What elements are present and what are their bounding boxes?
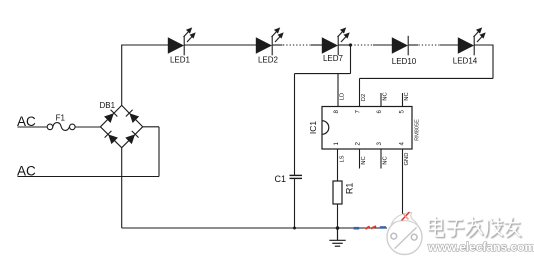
annotation: red dash 1 <box>365 226 369 229</box>
svg-text:6: 6 <box>376 110 383 114</box>
wire: right side drop to D2 return <box>492 45 494 79</box>
LED D10 (LED10) <box>392 36 408 56</box>
svg-text:D2: D2 <box>361 94 367 101</box>
diode bottom-left (- bottom to left corner) <box>105 131 118 144</box>
wire: fuse to bridge left corner <box>75 126 100 128</box>
svg-text:8: 8 <box>333 110 340 114</box>
wire: C1 branch down to C1 top plate <box>294 74 296 175</box>
svg-text:1: 1 <box>333 142 340 146</box>
wire: LED7 cathode to junction <box>338 44 350 46</box>
bridge rectifier DB1 <box>100 105 142 147</box>
wire: pin 4 stub down to rail <box>402 149 404 214</box>
pin 3 stub <box>380 149 382 169</box>
diamond edges <box>100 105 121 126</box>
watermark logo circle <box>387 213 422 255</box>
wire: pin 8 stub <box>337 74 339 107</box>
annotation: red dash 2 <box>371 226 376 229</box>
diode top-left (left corner to + top) <box>104 110 117 123</box>
diode bottom-right (- bottom to right corner) <box>125 131 138 144</box>
LED D14 (LED14) <box>458 27 486 55</box>
svg-text:NC: NC <box>404 92 410 100</box>
wire: bridge right corner out <box>143 126 159 128</box>
wire: LED1 cathode to LED2 anode <box>184 44 256 46</box>
capacitor C1 <box>290 175 303 178</box>
svg-text:LED7: LED7 <box>323 54 344 63</box>
wire: top rail to LED1 anode <box>121 44 168 46</box>
wire (dotted): LED10 cathode to LED14 anode <box>409 44 418 46</box>
svg-text:IC1: IC1 <box>308 121 318 135</box>
svg-text:R1: R1 <box>345 183 355 195</box>
ground symbol <box>329 228 345 246</box>
svg-text:5: 5 <box>399 110 406 114</box>
pin 5 stub <box>402 93 404 107</box>
LED D1 (LED1) <box>168 27 196 55</box>
diode top-right (right corner to + top) <box>126 110 139 123</box>
LED D7 (LED7) <box>322 27 350 55</box>
wire: R1 bottom to rail <box>337 204 339 228</box>
pin 6 stub <box>380 93 382 107</box>
wire: pin 1 stub down to R1 <box>337 149 339 181</box>
wire (dotted): LED2 cathode to LED7 anode <box>273 44 283 46</box>
resistor R1 <box>333 181 342 204</box>
svg-text:NC: NC <box>382 92 388 100</box>
pin 2 stub <box>359 149 361 169</box>
annotation: blue dash on rail (left) <box>354 227 360 230</box>
svg-text:GND: GND <box>404 153 410 166</box>
annotation: red cross over pin4 wire <box>402 212 410 221</box>
svg-text:LED14: LED14 <box>453 57 478 66</box>
svg-text:LED10: LED10 <box>392 57 417 66</box>
wire: bridge bottom to ground rail <box>121 148 123 228</box>
wire: LED7 tap down to LD net <box>350 45 352 74</box>
wire: AC2 line <box>18 176 160 178</box>
svg-text:RM805E: RM805E <box>414 119 420 141</box>
svg-text:C1: C1 <box>274 174 286 184</box>
svg-text:2: 2 <box>355 142 362 146</box>
wire: AC input to fuse <box>18 126 48 128</box>
wire: bridge top output up to LED rail <box>121 45 123 106</box>
svg-text:DB1: DB1 <box>100 101 116 110</box>
svg-text:LED1: LED1 <box>170 56 191 65</box>
svg-text:LS: LS <box>339 155 345 162</box>
wire: C1 bottom plate to bottom rail <box>294 179 296 228</box>
svg-text:www.elecfans.com: www.elecfans.com <box>427 240 534 254</box>
fuse F1 <box>47 123 75 131</box>
wire: LED14 cathode to right corner <box>474 44 493 46</box>
junction dot: R1 / bottom rail <box>336 226 340 230</box>
svg-text:LED2: LED2 <box>258 56 279 65</box>
svg-text:NC: NC <box>361 156 367 164</box>
svg-text:LD: LD <box>339 93 345 100</box>
wire: D2 return horizontal to pin 7 <box>360 77 494 79</box>
svg-text:NC: NC <box>382 156 388 164</box>
svg-text:3: 3 <box>376 142 383 146</box>
svg-text:7: 7 <box>355 110 362 114</box>
wire (dotted): junction to LED10 anode <box>351 44 373 46</box>
wire: bottom rail <box>122 227 387 229</box>
LED D2 (LED2) <box>256 27 284 55</box>
svg-text:4: 4 <box>399 142 406 146</box>
wire: LD net horizontal to C1 branch <box>295 73 351 75</box>
wire: pin 7 stub <box>359 78 361 106</box>
annotation: blue dash on rail (right) <box>380 226 386 229</box>
junction dot at LED7 tap <box>349 43 352 46</box>
junction dot: C1 / bottom rail <box>293 227 296 230</box>
svg-text:F1: F1 <box>56 114 66 123</box>
IC U1 (IC1) body <box>322 107 412 150</box>
watermark text 电子发烧友 (drawn strokes) <box>429 218 521 238</box>
wire: right corner down to AC2 line <box>158 127 160 177</box>
